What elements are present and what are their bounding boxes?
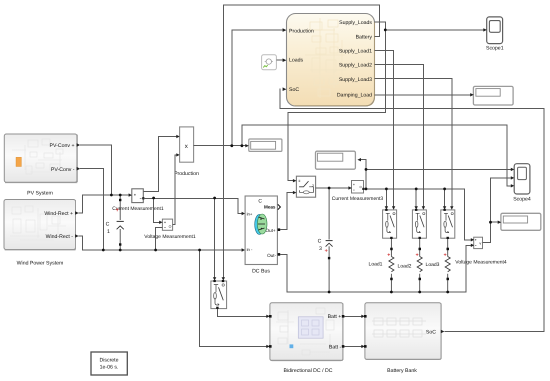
Meas port chevron — [278, 204, 281, 209]
svg-text:Wind-Rect +: Wind-Rect + — [44, 211, 73, 217]
Loads signal source block — [262, 55, 277, 70]
breaker Load switch 2 — [412, 209, 426, 239]
node CM3 display/scope branch — [365, 168, 368, 171]
svg-text:DC Bus: DC Bus — [252, 269, 270, 275]
breaker battery switch — [211, 280, 227, 309]
svg-text:Supply_Load3: Supply_Load3 — [339, 77, 372, 83]
arrow into breaker3 control — [450, 206, 453, 209]
svg-text:Wind-Rect -: Wind-Rect - — [46, 234, 74, 240]
Wind Power System subsystem — [4, 200, 79, 267]
arrow into Scope4 in2 — [511, 176, 515, 179]
wire VM1 v to multiply in2 — [173, 155, 177, 225]
node C1 top — [119, 194, 122, 197]
wire Supply_Loads branch to Scope1 — [385, 29, 484, 31]
node C3 bottom — [328, 291, 331, 294]
svg-text:1: 1 — [107, 229, 110, 235]
node C3 top — [328, 187, 331, 190]
svg-text:v: v — [479, 242, 481, 246]
display Display4 (voltage) — [501, 213, 541, 230]
svg-text:1e-06 s.: 1e-06 s. — [100, 364, 119, 370]
wire SoC feedback (battery bank to EMS) — [280, 89, 544, 331]
svg-text:Wind Power System: Wind Power System — [17, 261, 64, 267]
Scope4 — [513, 164, 531, 203]
wire VM1 + input — [154, 198, 160, 222]
arrow into DC Bus in+ — [242, 212, 245, 215]
svg-text:Loads: Loads — [289, 58, 304, 64]
arrow into Scope1 — [483, 28, 487, 31]
svg-text:PV System: PV System — [27, 191, 53, 197]
wire switch out to CM3 — [316, 187, 349, 189]
arrow into DC/DC in1 — [266, 315, 270, 318]
arrow into Scope4 in1 — [511, 168, 515, 171]
wire CM3 i to Scope4 in1 — [366, 168, 511, 170]
node breaker2 bus tap — [415, 188, 418, 191]
Scope1 — [486, 17, 504, 51]
wire CM1 i to multiply in1 — [143, 137, 177, 192]
arrow into VM4 - — [471, 244, 474, 247]
arrow into Display2 (flipped, points left) — [357, 158, 361, 161]
svg-text:Voltage Measurement1: Voltage Measurement1 — [144, 234, 196, 240]
PV orange cell icon — [16, 157, 21, 166]
wire VM4 v branch to Display4 — [491, 221, 499, 223]
wire CM3 out bus to loads and VM4+ — [364, 189, 472, 240]
node breaker3 bus tap — [443, 188, 446, 191]
svg-text:Production: Production — [174, 171, 199, 177]
svg-text:Supply_Loads: Supply_Loads — [339, 20, 372, 26]
svg-text:Battery Bank: Battery Bank — [387, 368, 417, 374]
svg-text:Discrete: Discrete — [99, 357, 118, 363]
wire VM1 - input — [156, 228, 163, 250]
svg-text:Out-: Out- — [267, 253, 276, 258]
svg-text:SoC: SoC — [426, 330, 436, 336]
svg-text:Damping_Load: Damping_Load — [337, 93, 372, 99]
node VM1 branch — [152, 197, 155, 200]
wire CM3 i to Display2 — [361, 160, 366, 170]
wire bus+ branch down to battery breaker — [214, 198, 216, 278]
svg-text:Batt +: Batt + — [328, 314, 342, 320]
wire PV- to bottom bus — [80, 169, 103, 250]
Energy Management subsystem (tan) — [287, 14, 375, 107]
node Load2 bottom — [418, 291, 421, 294]
node supply_loads scope1 branch — [384, 29, 387, 32]
arrow into CM1 — [129, 193, 132, 196]
node production scope branch — [241, 144, 244, 147]
output port 1 — [75, 211, 79, 215]
arrow into Scope4 in3 — [511, 184, 515, 187]
DC Bus block — [245, 196, 280, 275]
powergui Discrete block — [91, 352, 127, 375]
svg-text:Supply_Load1: Supply_Load1 — [339, 48, 372, 54]
arrow into battery breaker in1 — [213, 277, 216, 280]
display Display2 (current) — [316, 151, 356, 169]
SoC output port — [441, 330, 445, 334]
node DC/DC branch bottom bus — [198, 249, 201, 252]
wire DC Bus Out- to bottom load bus to VM4- — [280, 245, 471, 292]
svg-text:Load2: Load2 — [398, 263, 412, 269]
Voltage Measurement1 block — [144, 219, 196, 240]
Out- port pad — [278, 253, 281, 256]
node breaker branch on bus+ — [213, 197, 216, 200]
node VM4 display branch — [489, 221, 492, 224]
svg-text:Load1: Load1 — [369, 261, 383, 267]
breaker Load switch 1 — [383, 209, 397, 239]
wire CM3 i riser — [365, 169, 367, 189]
Bidirectional DC / DC subsystem — [269, 303, 344, 374]
Battery Bank subsystem — [364, 303, 444, 374]
wire Batt- link — [344, 345, 361, 347]
arrow into multiply in1 — [176, 135, 179, 138]
capacitor C1 — [106, 195, 124, 251]
wire top bus CM1 to DC Bus in+ — [143, 198, 242, 213]
arrow into DC/DC in2 — [266, 345, 270, 348]
wire bus drop to breaker2 — [415, 189, 417, 207]
wire battery breaker to DC/DC in1 — [217, 309, 266, 316]
wire Supply_Load2 to breaker2 control — [374, 65, 423, 207]
wire bottom bus branch to DC/DC in2 — [200, 250, 267, 346]
svg-text:C: C — [258, 198, 262, 204]
svg-text:Out+: Out+ — [266, 228, 276, 233]
wire VM4 v to Scope4 in2 — [483, 178, 512, 242]
arrow into main switch bottom — [293, 191, 297, 194]
svg-text:PV-Conv +: PV-Conv + — [50, 143, 75, 149]
Current Measurement3 block — [332, 181, 384, 203]
resistor Load1 — [369, 239, 394, 292]
svg-text:Supply_Load2: Supply_Load2 — [339, 63, 372, 69]
svg-text:C: C — [106, 222, 110, 228]
wire bus drop to breaker3 — [444, 189, 446, 207]
wire Wind- and bottom bus to DC Bus in- — [79, 236, 243, 250]
node PV- bottom bus — [102, 249, 105, 252]
node CM3 i riser base — [365, 188, 368, 191]
svg-text:Battery: Battery — [356, 35, 373, 41]
arrow into tan Production input — [283, 28, 287, 32]
right port pads — [342, 315, 345, 318]
svg-text:C: C — [318, 239, 322, 245]
svg-text:Scope1: Scope1 — [486, 45, 504, 51]
machine icon — [255, 214, 264, 234]
arrow into tan Loads input — [283, 58, 287, 62]
wire production riser to tan Production input — [232, 30, 283, 146]
capacitor C3 — [318, 188, 333, 292]
svg-text:in -: in - — [247, 247, 253, 252]
wire Supply_Load3 to breaker3 control — [374, 79, 452, 207]
arrow into Display3 — [470, 93, 474, 96]
arrow into VM1 + — [159, 221, 162, 224]
svg-text:Bidirectional DC / DC: Bidirectional DC / DC — [283, 368, 332, 374]
output port 2 — [77, 167, 81, 171]
wire Damping_Load to Display3 — [374, 94, 470, 96]
svg-text:Production: Production — [289, 29, 314, 35]
wire Supply_Loads to main switch — [288, 22, 385, 181]
node production riser — [230, 144, 233, 147]
left port pads — [269, 315, 272, 318]
svg-text:PV-Conv -: PV-Conv - — [51, 167, 75, 173]
wire Wind+ and top bus to CM1 — [79, 195, 129, 213]
wire Supply_Load1 to breaker1 control — [374, 50, 393, 206]
output port 2 — [75, 234, 79, 238]
arrow into Battery Bank in2 — [361, 345, 365, 348]
arrow into VM4 + — [471, 238, 474, 241]
arrow into breaker2 pad — [415, 206, 418, 209]
arrow into breaker1 pad — [385, 206, 388, 209]
wire DC Bus Out+ riser to switch — [280, 193, 293, 230]
node VM1- bottom bus — [154, 249, 157, 252]
arrow into CM3 — [348, 186, 351, 189]
wire PV+ to top bus — [80, 145, 111, 195]
PV System subsystem — [4, 134, 80, 197]
svg-text:Batt -: Batt - — [329, 344, 342, 350]
arrow into breaker3 pad — [443, 206, 446, 209]
arrow into breaker2 control — [422, 206, 425, 209]
svg-text:Load3: Load3 — [426, 262, 440, 268]
node C1 bottom — [119, 249, 122, 252]
Out+ port pad — [278, 228, 281, 231]
wire bus drop to breaker1 — [385, 189, 387, 207]
arrow into tan SoC input — [283, 87, 287, 91]
left port pads — [364, 315, 367, 318]
display Display3 (damping load) — [473, 86, 513, 105]
Voltage Measurement4 block — [455, 237, 507, 265]
svg-text:2: 2 — [312, 184, 314, 188]
Production multiply block — [174, 127, 199, 177]
wire Battery command loop — [223, 5, 379, 278]
svg-text:Scope4: Scope4 — [513, 197, 531, 203]
arrow into DC Bus in- — [242, 248, 245, 251]
arrow into multiply in2 — [176, 153, 179, 156]
resistor Load2 — [398, 239, 423, 292]
arrow into battery breaker control — [222, 277, 225, 280]
arrow into Display4 — [498, 221, 502, 224]
node PV+ bus — [110, 194, 113, 197]
svg-text:SoC: SoC — [289, 87, 299, 93]
main loads switch block — [296, 176, 315, 197]
resistor Load3 — [426, 239, 451, 292]
arrow into Display1 — [245, 144, 249, 147]
wire Batt+ link — [344, 315, 361, 317]
svg-text:Voltage Measurement4: Voltage Measurement4 — [455, 259, 507, 265]
Current Measurement1 block — [112, 189, 164, 212]
node Load1 bottom — [390, 291, 393, 294]
arrow into Battery Bank in1 — [361, 315, 365, 318]
node breaker1 bus tap — [385, 188, 388, 191]
svg-text:Meas: Meas — [264, 205, 276, 210]
display Display1 (production) — [249, 139, 282, 151]
wire Loads source to tan input — [277, 59, 283, 61]
wire multiply out to Display1 — [194, 145, 246, 147]
svg-text:in+: in+ — [247, 212, 253, 217]
node Load3 bottom — [446, 291, 449, 294]
svg-text:Current Measurement3: Current Measurement3 — [332, 196, 384, 202]
breaker Load switch 3 — [441, 209, 455, 239]
svg-text:3: 3 — [319, 246, 322, 252]
wire production to Scope4 (long) — [242, 125, 511, 186]
arrow into breaker1 control — [392, 206, 395, 209]
arrow into main switch top — [293, 179, 297, 182]
output port 1 — [77, 143, 81, 147]
